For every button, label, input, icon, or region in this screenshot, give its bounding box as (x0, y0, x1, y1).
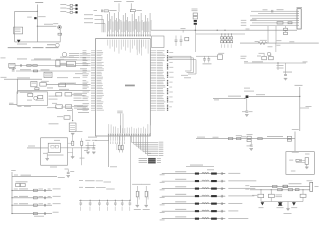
diode D1 (27, 16, 46, 19)
label (267, 135, 283, 138)
connector J3 (305, 158, 308, 165)
capacitor C29 (92, 140, 97, 154)
signal row M7 (160, 216, 249, 220)
component U12 (252, 194, 264, 197)
interior wires (117, 111, 123, 134)
ground (245, 115, 249, 117)
component stack (284, 26, 288, 35)
wire (246, 98, 248, 110)
wire (72, 106, 82, 108)
wire (261, 197, 303, 201)
wire (258, 13, 297, 15)
wire (18, 88, 91, 93)
wire (1, 58, 91, 61)
wire (27, 146, 48, 148)
wire (12, 175, 65, 178)
signal row M3 (160, 186, 256, 190)
crystal Y1 (43, 140, 60, 154)
capacitor C2 chain (94, 10, 117, 13)
capacitor C15 (284, 63, 287, 76)
wire pair (119, 3, 131, 12)
resistor R18 (295, 189, 299, 191)
U1 bottom pin numbers band (108, 134, 151, 136)
capacitor C27 (49, 123, 77, 132)
label (181, 28, 250, 29)
capacitor bank C8-C13 (221, 34, 233, 48)
ground (305, 164, 309, 169)
left net row 1 (84, 14, 102, 32)
module box M1 (17, 92, 48, 106)
capacitor C14 (272, 10, 273, 13)
wire (95, 139, 109, 141)
wire bus (11, 170, 16, 214)
component X2 (57, 116, 70, 119)
node (37, 11, 38, 27)
component U21 (66, 105, 72, 109)
component pair (236, 135, 242, 139)
resistor R10 (288, 22, 292, 24)
wire (299, 87, 301, 131)
wire (130, 136, 132, 200)
resistor R13 (258, 138, 262, 140)
wire (185, 71, 196, 74)
wire (250, 15, 297, 17)
net row (69, 52, 91, 55)
resistor R8 (35, 88, 39, 90)
wire (277, 63, 284, 70)
connector J1 (297, 7, 303, 29)
transistor Q3 (62, 52, 67, 57)
component U17 (59, 83, 75, 87)
component box U8 (152, 36, 165, 48)
wire (196, 55, 218, 57)
left net row 2 (84, 18, 104, 32)
label (34, 215, 44, 218)
node (72, 120, 73, 121)
component U2 (44, 72, 52, 77)
power net +VBAT (35, 2, 43, 42)
label (16, 180, 28, 183)
net row K1 (11, 189, 60, 192)
component pair (287, 136, 291, 141)
label (305, 153, 310, 156)
resistor R11 zigzag (258, 40, 267, 45)
U1 top pin wires (108, 12, 152, 34)
capacitor C3 chain (130, 10, 142, 12)
U1 top pin numbers band (107, 34, 151, 36)
transistor Q2 (34, 96, 38, 100)
resistor R16 (278, 189, 283, 191)
component U19 (65, 93, 72, 96)
net row K4 (11, 212, 58, 215)
capacitor C6 (203, 56, 206, 62)
wire (60, 62, 91, 64)
wire bus top (250, 186, 310, 188)
wire (79, 180, 111, 182)
resistor R2 (58, 33, 62, 35)
capacitor C17 (247, 139, 253, 147)
signal row M1 (160, 171, 241, 175)
module M3 right pins (68, 143, 73, 152)
resistor R20 (81, 138, 88, 165)
capacitor C-big (141, 184, 151, 210)
label (17, 43, 27, 46)
component U6 (36, 95, 44, 100)
wire (9, 103, 17, 105)
wire (44, 64, 91, 66)
net labels (74, 93, 85, 101)
diode D4 (292, 202, 296, 206)
capacitor C32 (71, 148, 75, 159)
transistor Q6 (259, 47, 276, 56)
labels (259, 206, 298, 209)
component U4 (40, 81, 49, 86)
wire (60, 147, 95, 149)
U1 top inside pin labels (108, 40, 151, 56)
label (283, 71, 292, 74)
ground (71, 131, 83, 135)
component U5 (27, 93, 33, 100)
U1 left pins (83, 50, 105, 110)
antenna connector J2 (307, 180, 319, 191)
transistor Q4 (244, 88, 254, 98)
resistor R15 (272, 185, 277, 187)
wire bus2 (196, 33, 245, 35)
wire (296, 162, 305, 164)
label (48, 154, 64, 157)
capacitor C18 (65, 169, 75, 174)
wire (109, 136, 118, 167)
wire (261, 201, 303, 203)
component U22 (185, 37, 189, 40)
U1 bottom stub wires (108, 136, 125, 144)
wire (79, 187, 115, 190)
wire (16, 69, 91, 71)
wire (196, 136, 295, 138)
diode D3 (278, 202, 283, 206)
net row K2 (11, 196, 60, 199)
component U13 (268, 194, 282, 197)
component U15 (56, 59, 64, 67)
resistor pair R3 R4 (117, 136, 124, 153)
wire (249, 94, 300, 96)
wire (46, 83, 91, 85)
transistor Q5 (56, 43, 60, 47)
resistor R7 (33, 70, 37, 72)
component U16 (64, 59, 77, 66)
net labels (61, 106, 89, 113)
wire bus (169, 58, 194, 73)
diode D2 (261, 202, 265, 206)
wire drops (261, 190, 303, 194)
wire (37, 24, 56, 26)
signal row M6 (160, 209, 239, 213)
net row (69, 56, 91, 59)
component F1 (283, 183, 302, 187)
signal row M2 (160, 179, 257, 183)
wire bus bottom (250, 189, 310, 191)
polarized cap C1 (17, 40, 21, 43)
inner chain (289, 159, 305, 162)
wire (241, 24, 297, 27)
wire (72, 135, 74, 137)
net row (69, 54, 91, 57)
capacitor C5 (12, 67, 15, 71)
net labels (181, 75, 191, 78)
wire (17, 79, 19, 94)
signal row M4 (160, 194, 255, 198)
component U14 (300, 194, 306, 197)
wire (241, 19, 297, 22)
wire bus (169, 60, 197, 74)
net label (88, 136, 97, 139)
net label row 2 (60, 8, 77, 10)
wire (59, 29, 61, 42)
node (260, 189, 303, 190)
net label (60, 56, 74, 59)
resistor R12 (228, 138, 232, 140)
transistor Q1 (53, 23, 61, 29)
resistor R9 (277, 22, 283, 24)
wire (251, 9, 297, 11)
node (195, 30, 226, 31)
wire (15, 41, 61, 43)
U1 right pin stubs (150, 51, 156, 110)
component U9 (247, 134, 253, 142)
U1 bottom stair wires (132, 136, 164, 156)
wire (268, 43, 281, 47)
node (277, 62, 278, 63)
component U20 (56, 105, 63, 109)
capacitor C30 (175, 36, 178, 46)
node (244, 98, 245, 99)
U1 bottom inside pin labels (109, 124, 151, 133)
wire (241, 21, 297, 24)
wire bus (79, 199, 131, 201)
battery box B1 (14, 27, 23, 34)
capacitor C16 (245, 111, 248, 112)
ground (45, 152, 49, 160)
wire (268, 26, 276, 43)
net labels (245, 185, 249, 189)
capacitor bank C19-C26 (80, 200, 132, 211)
capacitor C31 (180, 36, 183, 46)
U1 part number label (125, 85, 135, 87)
capacitor C4 (21, 64, 22, 67)
left net row 3 (84, 22, 105, 32)
net row K3 (11, 203, 60, 206)
module box M3 (41, 138, 68, 165)
resistor R19 (72, 138, 74, 146)
op-amp U1 body (96, 39, 151, 136)
wire (67, 109, 73, 121)
label net text (47, 43, 55, 46)
wire (186, 165, 214, 171)
power chain (192, 9, 198, 52)
component U7 (218, 53, 225, 59)
wire (14, 11, 16, 42)
net label (59, 88, 69, 91)
resistor R17 (288, 189, 292, 191)
ground (284, 202, 292, 215)
ground (284, 78, 288, 80)
component box U10 (16, 183, 26, 186)
net label row 3 (60, 11, 77, 13)
component U3 (31, 81, 37, 86)
wire (251, 18, 298, 20)
ground (249, 149, 253, 151)
net labels (47, 96, 58, 108)
label (86, 144, 96, 147)
resistor R5 (27, 65, 31, 67)
module box M2 (286, 152, 314, 175)
wire bus (169, 56, 192, 71)
label (203, 62, 212, 65)
node (299, 96, 300, 97)
wire (15, 65, 44, 67)
ground (66, 176, 70, 178)
label (295, 84, 303, 87)
wire (300, 106, 312, 108)
wire (72, 93, 82, 95)
capacitor C28 (86, 140, 91, 154)
net label row 1 (60, 4, 77, 6)
signal row M5 (160, 201, 243, 205)
component X1 (9, 63, 16, 68)
J1 pins (297, 11, 299, 25)
caption text (8, 47, 59, 48)
net labels (74, 105, 86, 108)
label (242, 110, 253, 113)
bold net row 2 (139, 160, 161, 162)
label (50, 166, 57, 169)
cap group labels (114, 0, 134, 3)
wire (213, 96, 245, 101)
wire (240, 40, 319, 43)
U1 right pin labels (157, 50, 174, 111)
wire (292, 129, 299, 153)
net labels (57, 68, 87, 78)
component pair (241, 54, 274, 60)
bold net row 1 (139, 158, 161, 160)
wire (15, 10, 38, 12)
labels (18, 105, 32, 108)
capacitor C-big (132, 184, 142, 210)
resistor R6 (33, 65, 37, 67)
wire (182, 30, 184, 32)
component U18 (56, 93, 62, 96)
label (80, 157, 85, 160)
label (148, 152, 151, 155)
capacitor C7 (207, 56, 210, 62)
wire (1, 77, 43, 79)
bold net row 3 (139, 162, 161, 164)
wire bus (151, 29, 297, 31)
label (291, 170, 296, 173)
wire (244, 61, 308, 63)
